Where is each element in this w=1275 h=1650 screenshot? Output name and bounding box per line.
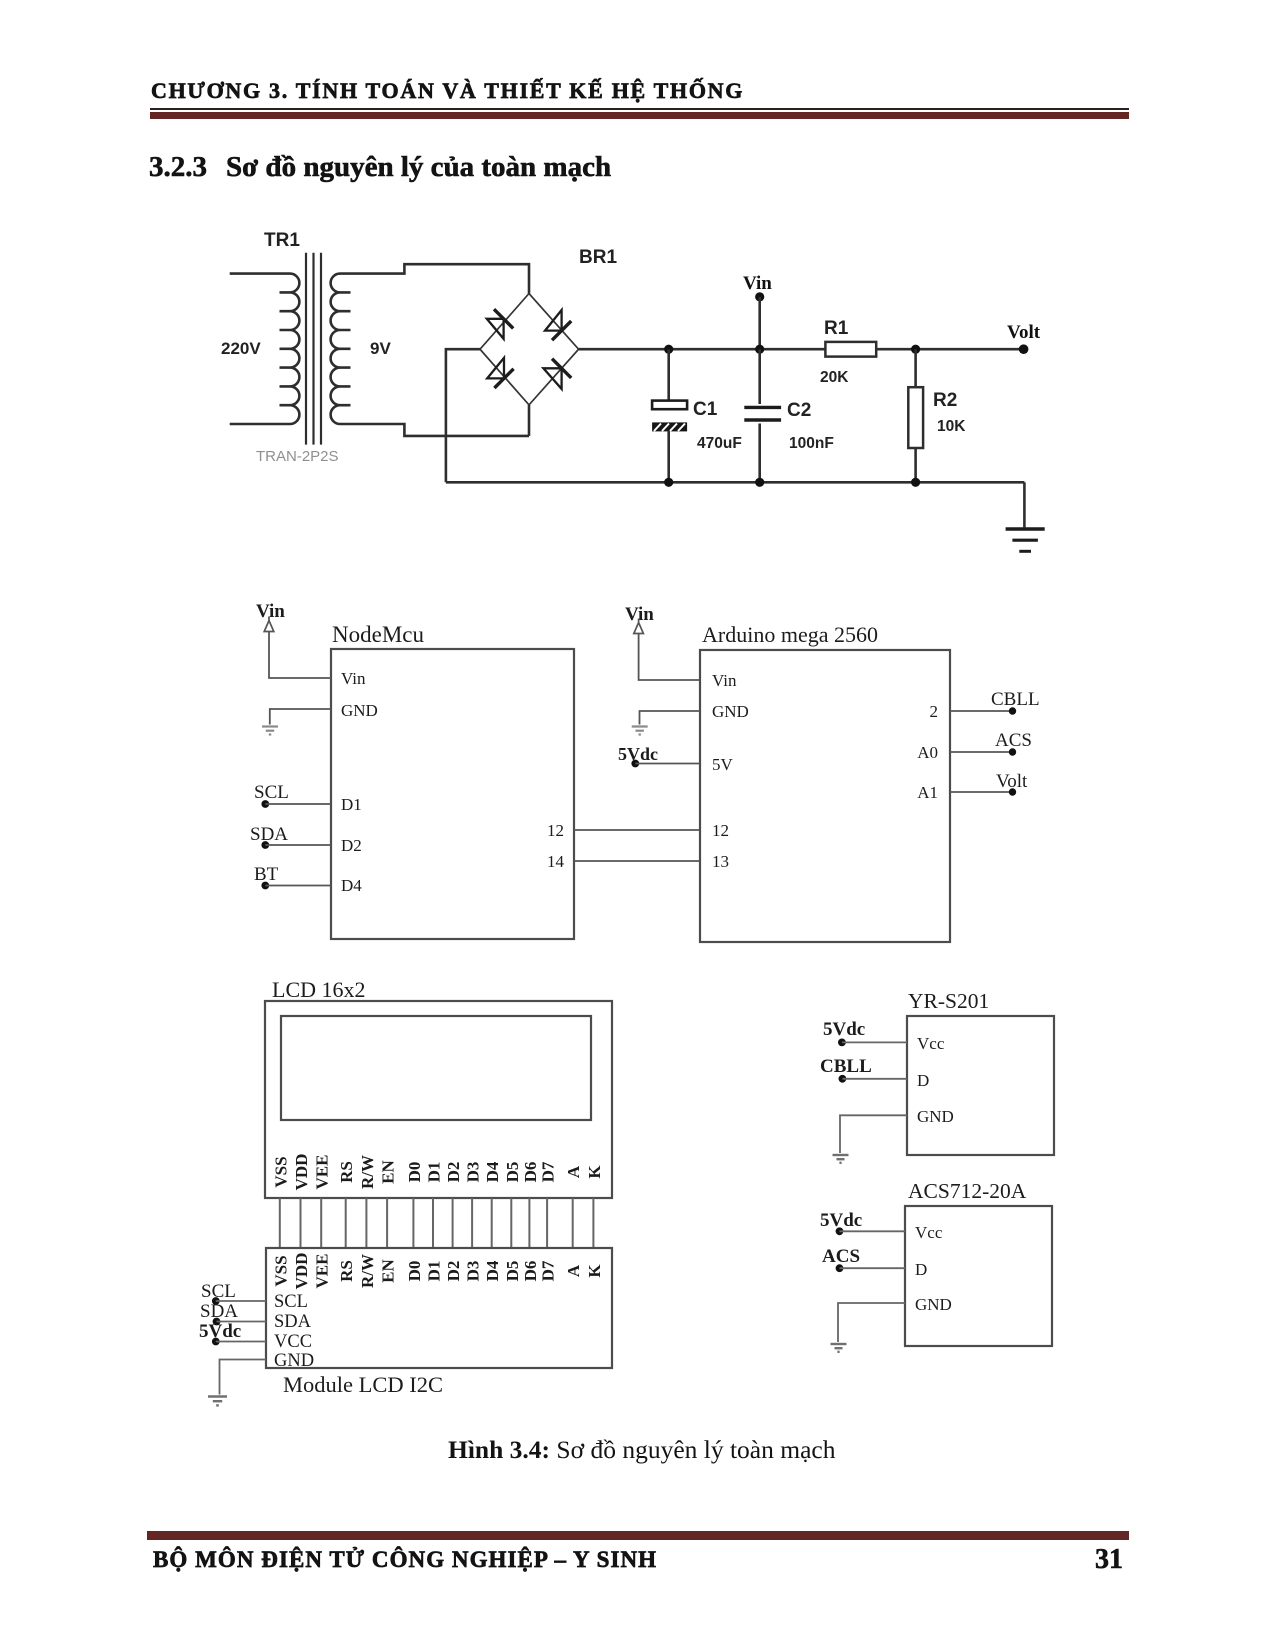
junction R2 bottom (911, 478, 920, 487)
junction C2 bottom (755, 478, 764, 487)
svg-text:VDD: VDD (292, 1154, 311, 1191)
svg-text:Arduino mega 2560: Arduino mega 2560 (702, 622, 878, 647)
svg-text:D0: D0 (405, 1261, 424, 1282)
svg-text:D2: D2 (444, 1261, 463, 1282)
svg-text:D2: D2 (341, 836, 362, 855)
wire secondary top to bridge (340, 264, 529, 293)
svg-text:RS: RS (337, 1260, 356, 1282)
svg-text:Vin: Vin (341, 669, 366, 688)
svg-text:RS: RS (337, 1161, 356, 1183)
svg-text:Vcc: Vcc (917, 1034, 945, 1053)
node SDA I2C (200, 1301, 266, 1325)
svg-text:VEE: VEE (313, 1254, 332, 1289)
svg-text:Vcc: Vcc (915, 1223, 943, 1242)
svg-text:10K: 10K (937, 418, 966, 435)
svg-text:EN: EN (379, 1159, 398, 1183)
svg-text:D7: D7 (539, 1260, 558, 1281)
svg-text:12: 12 (547, 821, 564, 840)
node 5Vdc YR (823, 1019, 907, 1046)
wire secondary bottom to bridge (340, 424, 529, 436)
svg-text:9V: 9V (370, 339, 391, 358)
svg-text:ACS: ACS (822, 1246, 860, 1267)
node ACS input (822, 1246, 905, 1272)
svg-text:BR1: BR1 (579, 247, 617, 268)
svg-text:A: A (564, 1264, 583, 1277)
wire NodeMcu 14 to Arduino 13 (574, 860, 700, 862)
section heading 3.2.3 (149, 153, 611, 182)
svg-text:VEE: VEE (313, 1155, 332, 1190)
svg-text:D1: D1 (341, 795, 362, 814)
svg-text:20K: 20K (820, 369, 849, 386)
svg-text:2: 2 (930, 702, 939, 721)
svg-text:D6: D6 (521, 1261, 540, 1282)
svg-text:GND: GND (917, 1107, 954, 1126)
wires LCD to I2C module (280, 1198, 594, 1248)
pin labels ACS712 (915, 1223, 952, 1314)
svg-text:D1: D1 (425, 1261, 444, 1282)
node CBLL (950, 689, 1040, 715)
node Volt terminal (1019, 344, 1029, 354)
svg-text:K: K (585, 1165, 604, 1179)
node SCL I2C (201, 1281, 266, 1305)
LCD 16x2 module body (265, 1001, 612, 1198)
node Volt out (950, 771, 1028, 796)
svg-text:D6: D6 (521, 1162, 540, 1183)
svg-text:LCD 16x2: LCD 16x2 (272, 977, 366, 1002)
svg-text:A0: A0 (917, 743, 938, 762)
svg-text:R/W: R/W (358, 1254, 377, 1288)
wire main output rail (579, 348, 1024, 351)
LCD screen (281, 1016, 591, 1120)
svg-text:SDA: SDA (274, 1312, 312, 1332)
svg-text:D5: D5 (503, 1261, 522, 1282)
pin labels NodeMcu (341, 669, 565, 895)
node 5Vdc ACS (820, 1210, 905, 1235)
svg-text:R/W: R/W (358, 1155, 377, 1189)
wire bottom rail (446, 481, 1025, 484)
svg-text:D7: D7 (539, 1161, 558, 1182)
svg-text:Vin: Vin (712, 671, 737, 690)
svg-text:D5: D5 (503, 1162, 522, 1183)
svg-text:Vin: Vin (743, 273, 772, 294)
node Vin terminal Arduino (625, 604, 700, 680)
ground YR (833, 1115, 908, 1163)
Arduino mega 2560 U2 (700, 650, 950, 942)
svg-text:SCL: SCL (274, 1292, 308, 1312)
flow sensor YR-S201 (907, 1016, 1054, 1155)
svg-text:470uF: 470uF (697, 435, 742, 452)
svg-text:Vin: Vin (256, 601, 285, 622)
svg-text:GND: GND (274, 1351, 314, 1371)
svg-text:GND: GND (341, 701, 378, 720)
svg-text:VSS: VSS (271, 1255, 290, 1286)
capacitor C1 electrolytic (652, 349, 687, 482)
node Vin terminal (755, 292, 764, 349)
svg-text:VSS: VSS (271, 1156, 290, 1187)
header rule thick maroon (150, 112, 1129, 119)
pin labels Arduino (712, 671, 938, 871)
svg-text:C1: C1 (693, 399, 718, 420)
pin labels YR-S201 (917, 1034, 954, 1126)
svg-text:5V: 5V (712, 755, 734, 774)
ground Arduino (632, 711, 700, 735)
ground NodeMcu (262, 709, 331, 735)
pin labels I2C module rotated (271, 1253, 604, 1290)
wire NodeMcu 12 to Arduino 12 (574, 829, 700, 831)
node Vin terminal NodeMcu (256, 601, 331, 678)
svg-text:SDA: SDA (250, 824, 288, 845)
node SCL (254, 782, 331, 808)
svg-text:ACS712-20A: ACS712-20A (908, 1179, 1027, 1203)
node SDA (250, 824, 331, 849)
svg-text:C2: C2 (787, 400, 811, 421)
ground I2C module (208, 1360, 266, 1406)
ground power supply (1006, 482, 1045, 551)
footer page number (1023, 1546, 1123, 1574)
svg-text:A1: A1 (917, 783, 938, 802)
svg-text:D0: D0 (405, 1162, 424, 1183)
svg-text:12: 12 (712, 821, 729, 840)
svg-text:R1: R1 (824, 318, 849, 339)
svg-text:D: D (917, 1071, 929, 1090)
bridge rectifier BR1 (480, 294, 579, 436)
svg-text:5Vdc: 5Vdc (823, 1019, 865, 1040)
wire bridge left vertex down to bottom rail (446, 349, 480, 482)
header chapter title (151, 80, 744, 102)
svg-text:R2: R2 (933, 390, 957, 411)
svg-text:Volt: Volt (1007, 322, 1041, 343)
svg-text:NodeMcu: NodeMcu (332, 622, 424, 647)
svg-text:D3: D3 (464, 1261, 483, 1282)
svg-text:TRAN-2P2S: TRAN-2P2S (256, 448, 339, 465)
svg-text:VCC: VCC (274, 1332, 312, 1352)
junction C1 top (664, 345, 673, 354)
footer rule maroon (147, 1531, 1129, 1540)
svg-text:CBLL: CBLL (820, 1056, 872, 1077)
svg-text:EN: EN (379, 1258, 398, 1282)
svg-text:CBLL: CBLL (991, 689, 1040, 710)
node ACS (950, 730, 1032, 756)
svg-text:Vin: Vin (625, 604, 654, 625)
svg-text:14: 14 (547, 852, 565, 871)
pin labels LCD rotated (271, 1154, 604, 1191)
svg-text:K: K (585, 1264, 604, 1278)
svg-text:Module LCD I2C: Module LCD I2C (283, 1372, 443, 1397)
svg-text:VDD: VDD (292, 1253, 311, 1290)
svg-text:D1: D1 (425, 1162, 444, 1183)
node CBLL YR (820, 1056, 907, 1083)
ground ACS (831, 1303, 906, 1352)
resistor R1 (825, 342, 876, 357)
junction C2 top (755, 345, 764, 354)
svg-text:Volt: Volt (996, 771, 1028, 792)
node 5Vdc I2C (199, 1321, 266, 1345)
svg-text:D4: D4 (483, 1260, 502, 1281)
svg-text:D4: D4 (483, 1161, 502, 1182)
transformer TR1 (230, 253, 351, 445)
node BT (254, 864, 331, 889)
svg-text:13: 13 (712, 852, 729, 871)
figure caption (448, 1437, 835, 1463)
junction R2 top (911, 345, 920, 354)
junction C1 bottom (664, 478, 673, 487)
header rule thin (150, 108, 1129, 110)
svg-text:GND: GND (915, 1295, 952, 1314)
svg-text:GND: GND (712, 702, 749, 721)
svg-text:5Vdc: 5Vdc (199, 1321, 241, 1342)
pin labels I2C module left (274, 1292, 314, 1371)
svg-text:TR1: TR1 (264, 230, 300, 251)
NodeMcu U1 (331, 649, 574, 939)
svg-text:A: A (564, 1165, 583, 1178)
svg-text:D4: D4 (341, 876, 362, 895)
resistor R2 (908, 349, 923, 482)
svg-text:SCL: SCL (254, 782, 289, 803)
capacitor C2 (744, 349, 781, 482)
footer department text (153, 1548, 657, 1571)
svg-text:D: D (915, 1260, 927, 1279)
node 5Vdc Arduino (618, 744, 700, 767)
svg-text:D2: D2 (444, 1162, 463, 1183)
Module LCD I2C body (266, 1248, 612, 1368)
current sensor ACS712-20A (905, 1206, 1052, 1346)
svg-text:YR-S201: YR-S201 (908, 989, 989, 1013)
svg-text:ACS: ACS (995, 730, 1032, 751)
svg-text:100nF: 100nF (789, 435, 834, 452)
svg-text:220V: 220V (221, 339, 261, 358)
svg-text:D3: D3 (464, 1162, 483, 1183)
